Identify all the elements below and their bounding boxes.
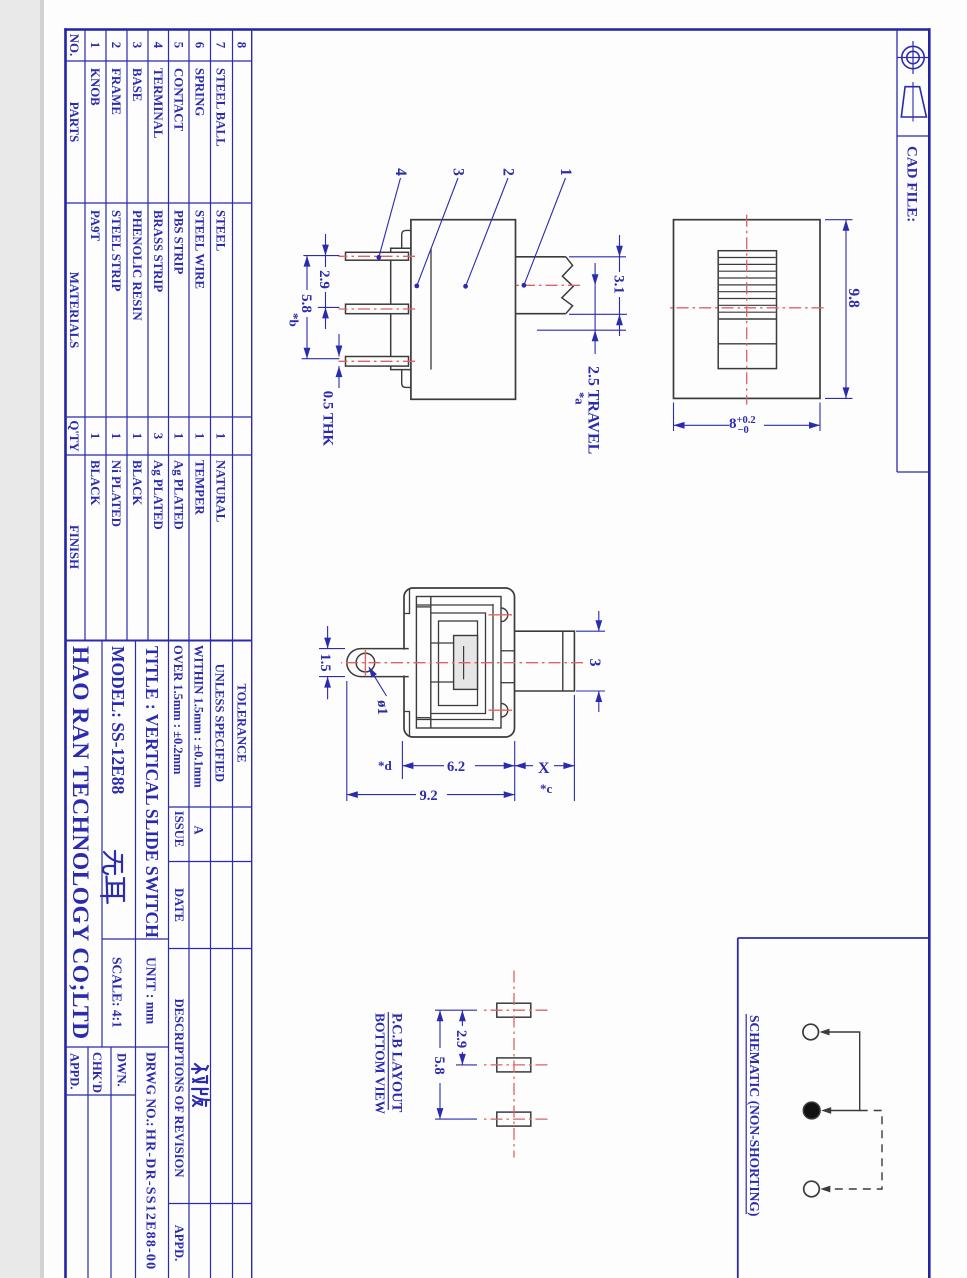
revision table column ISSUE/DATE divider — [169, 861, 252, 863]
revision row chinese word chu-ban (first issue) — [192, 1064, 209, 1106]
svg-text:2.5 TRAVEL: 2.5 TRAVEL — [585, 366, 602, 454]
pin 1 centerline — [339, 255, 416, 257]
svg-text:1: 1 — [130, 433, 144, 439]
ext line body top right — [514, 741, 516, 801]
svg-text:3: 3 — [151, 433, 165, 439]
top view vertical centerline — [667, 307, 823, 309]
svg-text:P.C.B LAYOUT: P.C.B LAYOUT — [389, 1013, 405, 1113]
svg-text:APPD.: APPD. — [172, 1225, 186, 1261]
side view body outline rounded — [404, 588, 515, 737]
svg-text:UNLESS SPECIFIED: UNLESS SPECIFIED — [213, 664, 227, 782]
svg-text:1: 1 — [214, 433, 228, 439]
pcb dim 5.8 line and arrows — [439, 1010, 441, 1048]
svg-text:SCALE: 4:1: SCALE: 4:1 — [110, 957, 125, 1028]
dim 3.1 outside arrows — [619, 235, 621, 257]
svg-text:*a: *a — [573, 392, 587, 405]
svg-text:APPD.: APPD. — [68, 1053, 82, 1089]
schematic dashed wire common to terminal3 — [828, 1111, 882, 1190]
DWN row line — [110, 1047, 112, 1278]
svg-text:TEMPER: TEMPER — [193, 460, 207, 516]
terminal pin 1 — [346, 252, 409, 260]
top view body outline — [674, 220, 821, 399]
svg-text:X: X — [538, 760, 550, 777]
dim 3 outside arrows — [598, 611, 600, 631]
dim 6.2 vertical line with arrows — [475, 765, 515, 767]
front view frame outline — [411, 220, 516, 400]
side view mounting tab — [403, 650, 411, 676]
svg-text:STEEL WIRE: STEEL WIRE — [193, 210, 207, 289]
svg-text:2: 2 — [500, 168, 517, 176]
svg-text:Q'TY: Q'TY — [67, 420, 81, 451]
dim X vertical line with arrows — [554, 765, 574, 767]
svg-text:NATURAL: NATURAL — [214, 460, 228, 522]
svg-text:Ag PLATED: Ag PLATED — [151, 460, 165, 530]
svg-text:0.5 THK: 0.5 THK — [320, 391, 336, 447]
pcb pad 1 — [497, 1003, 531, 1017]
terminal pin 2 — [346, 304, 409, 314]
svg-text:8: 8 — [235, 42, 249, 48]
svg-text:9.8: 9.8 — [845, 288, 862, 308]
dim 8+0.2-0 dimension line with arrows — [764, 424, 820, 426]
third-angle projection symbol - frustum — [901, 87, 926, 117]
front view base top edge seen line — [430, 248, 432, 369]
rivet centerline ticks red — [489, 614, 513, 616]
side view maze C-shape outer — [431, 613, 486, 714]
dim 9.2 vertical line with arrows — [447, 794, 515, 796]
svg-text:1: 1 — [172, 433, 186, 439]
svg-text:1: 1 — [88, 433, 102, 439]
svg-text:FRAME: FRAME — [109, 68, 123, 115]
svg-text:1: 1 — [88, 42, 102, 48]
dim 9.8 extension lines — [825, 219, 853, 221]
front view frame bent tab right — [402, 370, 411, 388]
schematic box left edge — [738, 937, 929, 939]
svg-text:FINISH: FINISH — [67, 525, 81, 569]
svg-text:NO.: NO. — [67, 34, 81, 56]
parts table vertical dividers — [66, 60, 252, 62]
dim 0.5 THK arrows at pin3 — [338, 334, 340, 357]
pcb pad 2 — [497, 1058, 531, 1072]
svg-text:3: 3 — [130, 42, 144, 48]
dim 3 extension lines above knob — [576, 630, 605, 632]
svg-text:BOTTOM VIEW: BOTTOM VIEW — [373, 1013, 388, 1115]
dim 8+0.2-0 extension lines — [819, 403, 821, 432]
svg-text:TERMINAL: TERMINAL — [151, 68, 165, 138]
svg-text:1: 1 — [109, 433, 123, 439]
dim 8+0.2-0 rotated text — [729, 415, 756, 436]
svg-text:PA9T: PA9T — [88, 210, 102, 242]
CAD FILE strip cell divider — [897, 135, 929, 137]
mounting tab hole dia 1 — [356, 653, 375, 672]
svg-text:BLACK: BLACK — [88, 460, 102, 506]
svg-text:HR-DR-SS12E88-00: HR-DR-SS12E88-00 — [143, 1129, 158, 1270]
pin 3 centerline — [339, 360, 416, 362]
dim 2.9 dimension line broken by text — [325, 256, 327, 267]
dim 2.5 travel extension line — [537, 329, 626, 331]
parts table row lines — [147, 30, 149, 641]
svg-text:ISSUE: ISSUE — [172, 811, 186, 847]
svg-text:5.8: 5.8 — [431, 1056, 447, 1074]
svg-text:DRWG NO.:: DRWG NO.: — [144, 1052, 159, 1127]
third-angle projection symbol - target circle — [902, 46, 924, 68]
svg-text:TITLE : VERTICAL SLIDE SWITCH: TITLE : VERTICAL SLIDE SWITCH — [142, 646, 162, 938]
model chinese word wu-er (no ears) — [101, 851, 124, 903]
svg-text:TOLERANCE: TOLERANCE — [235, 684, 249, 763]
side view vertical centerline — [341, 662, 583, 664]
svg-text:5.8: 5.8 — [298, 294, 314, 313]
side view metal lid inner line — [492, 604, 494, 721]
CAD FILE strip right end line — [897, 471, 929, 473]
pcb pad vertical centerlines — [481, 1009, 548, 1011]
top view knob serrations — [719, 257, 776, 259]
pin 2 centerline — [339, 308, 416, 310]
terminal pin 3 — [346, 357, 409, 367]
svg-text:BRASS STRIP: BRASS STRIP — [151, 210, 165, 292]
title block divider before DRWG NO / DWN column — [66, 1046, 169, 1048]
parts table + title block row lines (full width) — [251, 30, 253, 1278]
svg-text:Ni PLATED: Ni PLATED — [109, 460, 123, 527]
svg-text:3: 3 — [450, 168, 467, 176]
schematic terminal 3 (open circle) — [804, 1181, 820, 1197]
svg-text:*b: *b — [287, 313, 302, 327]
svg-text:BASE: BASE — [130, 68, 144, 101]
side view knob stem block — [454, 636, 478, 690]
pcb dim extension lines — [435, 1009, 477, 1011]
ext line tab bottom right — [346, 681, 348, 801]
ext line body bottom right — [401, 741, 403, 779]
svg-text:4: 4 — [151, 42, 165, 49]
dim 5.8 extension line at pin3 — [302, 358, 340, 360]
svg-text:1: 1 — [557, 168, 574, 176]
dim 3.1 extension lines — [569, 256, 626, 258]
side view bottom metal fold left — [404, 588, 410, 614]
front view knob centerline — [516, 284, 580, 286]
svg-text:3.1: 3.1 — [611, 275, 627, 294]
svg-text:STEEL BALL: STEEL BALL — [214, 68, 228, 147]
pcb common horizontal centerline — [513, 971, 515, 1158]
side view knob stem slot through top — [501, 650, 514, 652]
svg-text:3: 3 — [586, 659, 603, 667]
dim 2.9 outside arrows — [325, 234, 327, 256]
svg-text:2: 2 — [109, 42, 123, 48]
svg-text:PBS STRIP: PBS STRIP — [172, 210, 186, 275]
svg-text:*d: *d — [378, 758, 393, 773]
svg-text:CHK'D: CHK'D — [90, 1052, 104, 1093]
title block row line above company row — [101, 641, 103, 1048]
svg-text:6: 6 — [193, 42, 207, 49]
side view inner frame rect A — [416, 597, 501, 729]
dim 2.9 extension lines — [303, 255, 339, 257]
svg-text:KNOB: KNOB — [88, 68, 102, 106]
svg-text:A: A — [192, 825, 206, 834]
front view knob sides — [516, 256, 566, 258]
side view knob inner parallel line — [562, 631, 564, 691]
ext line knob top right — [573, 695, 575, 801]
svg-text:DESCRIPTIONS OF REVISION: DESCRIPTIONS OF REVISION — [172, 999, 186, 1178]
CHKD row line — [87, 1047, 89, 1278]
svg-text:MATERIALS: MATERIALS — [67, 272, 81, 349]
top view horizontal centerline — [746, 215, 748, 405]
revision table column DATE/DESCRIPTIONS divider — [169, 948, 252, 950]
svg-text:STEEL STRIP: STEEL STRIP — [109, 210, 123, 292]
svg-text:2.9: 2.9 — [316, 270, 332, 289]
top view knob edge line — [718, 318, 776, 320]
revision table left edge — [169, 806, 252, 808]
title block row line above TITLE row — [135, 641, 137, 1278]
revision table column DESCRIPTIONS/APPD divider — [169, 1203, 252, 1205]
svg-text:CONTACT: CONTACT — [172, 68, 186, 132]
grey desk strip along bottom (left edge of portrait screenshot) — [0, 0, 40, 1278]
svg-text:1.5: 1.5 — [317, 654, 333, 672]
schematic box bottom edge — [737, 938, 739, 1278]
schematic common terminal (filled circle) — [803, 1102, 820, 1119]
svg-text:PHENOLIC RESIN: PHENOLIC RESIN — [130, 210, 144, 321]
svg-text:ø1: ø1 — [374, 700, 390, 715]
pcb dim 2.9 line and arrows — [461, 1010, 463, 1026]
dim 3.1 dimension line broken by text — [619, 257, 621, 272]
title block / parts table shared vertical boundary — [66, 640, 252, 642]
side view base stubs — [416, 606, 430, 608]
svg-text:5: 5 — [172, 42, 186, 48]
pcb pad 3 — [497, 1112, 531, 1126]
side view maze inner rectangle — [439, 621, 478, 706]
dim 1.5 extension lines — [319, 648, 345, 650]
CAD FILE strip bottom line — [896, 30, 898, 472]
title block divider after DWN/CHKD/APPD labels — [66, 1094, 136, 1096]
drawing frame border left — [64, 28, 930, 31]
dim 5.8 dimension line broken by text — [306, 256, 308, 290]
top view slot divider line — [718, 343, 776, 345]
schematic solid wire terminal1 to common — [826, 1032, 860, 1111]
drawing frame border bottom — [64, 28, 67, 1278]
svg-text:*c: *c — [540, 781, 553, 796]
front view frame bent tab left — [402, 230, 411, 248]
svg-text:OVER 1.5mm : ±0.2mm: OVER 1.5mm : ±0.2mm — [171, 645, 185, 775]
svg-text:Ag PLATED: Ag PLATED — [172, 460, 186, 530]
dim 9.8 dimension line with arrows — [845, 220, 847, 399]
svg-text:9.2: 9.2 — [420, 788, 438, 804]
side view rivet dome left — [501, 608, 508, 622]
side view base top line — [430, 597, 432, 729]
side view stem pedestal lines — [431, 642, 454, 644]
svg-text:PARTS: PARTS — [67, 102, 81, 143]
side view rivet dome right — [501, 703, 508, 717]
svg-text:1: 1 — [193, 433, 207, 439]
dim 2.5 travel arrows and line — [594, 263, 596, 285]
svg-text:UNIT : mm: UNIT : mm — [144, 957, 159, 1025]
side view knob — [515, 631, 574, 691]
dim 1.5 outside arrows — [327, 626, 329, 649]
hole horizontal centerline red — [364, 650, 366, 676]
svg-text:4: 4 — [392, 168, 409, 176]
svg-text:CAD FILE:: CAD FILE: — [904, 146, 920, 222]
svg-text:DATE: DATE — [172, 888, 186, 922]
svg-text:2.9: 2.9 — [453, 1030, 469, 1048]
side view bottom metal fold right — [404, 712, 410, 738]
schematic terminal 1 (open circle) — [803, 1024, 819, 1040]
top view knob slot opening — [718, 251, 776, 369]
drawing frame border top — [928, 28, 931, 1278]
side view contact mechanism maze channel walls — [416, 604, 493, 606]
svg-text:7: 7 — [214, 42, 228, 49]
svg-text:MODEL: SS-12E88: MODEL: SS-12E88 — [108, 646, 128, 795]
svg-text:STEEL: STEEL — [214, 210, 228, 251]
svg-text:SCHEMATIC (NON-SHORTING): SCHEMATIC (NON-SHORTING) — [747, 1015, 762, 1216]
title block divider between TITLE/MODEL and UNIT/SCALE — [102, 938, 169, 940]
svg-text:SPRING: SPRING — [193, 68, 207, 116]
dia-1 leader and text — [369, 668, 387, 697]
front view base below frame — [391, 248, 411, 369]
front view knob break zigzag — [562, 257, 573, 314]
svg-text:HAO RAN TECHNOLOGY CO;LTD: HAO RAN TECHNOLOGY CO;LTD — [67, 646, 93, 1040]
svg-text:BLACK: BLACK — [130, 460, 144, 506]
svg-text:DWN.: DWN. — [115, 1053, 129, 1087]
svg-text:WITHIN 1.5mm : ±0.1mm: WITHIN 1.5mm : ±0.1mm — [192, 645, 206, 788]
svg-text:6.2: 6.2 — [447, 759, 465, 775]
